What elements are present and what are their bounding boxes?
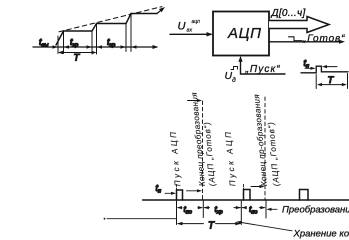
t_хр dimension xyxy=(204,207,209,209)
start pulse 2 xyxy=(244,190,251,201)
svg-text:T: T xyxy=(74,53,81,64)
ready arrowhead xyxy=(339,40,345,44)
time axis (staircase waveform) xyxy=(33,46,156,48)
svg-text:tхр: tхр xyxy=(107,37,115,48)
svg-text:Пуск АЦП: Пуск АЦП xyxy=(224,129,238,186)
t_хр2 dimension arrows xyxy=(97,45,102,48)
waveform end arrow xyxy=(157,9,163,14)
sampling ramp 1 xyxy=(56,31,64,45)
leader to Хранение кода xyxy=(239,222,293,231)
arrow to D1 top xyxy=(188,100,199,102)
dimension verticals (staircase) xyxy=(58,14,131,55)
t_п left arrow xyxy=(305,67,313,69)
sampling ramp 2 xyxy=(92,24,97,32)
svg-text:Uд: Uд xyxy=(225,70,237,84)
svg-text:tпо: tпо xyxy=(184,204,192,215)
start pulse waveform xyxy=(301,66,348,73)
svg-text:вх: вх xyxy=(187,28,193,34)
svg-text:tхр: tхр xyxy=(70,37,78,48)
t_п right arrow xyxy=(325,66,337,68)
T dimension line (pulse) xyxy=(319,84,346,86)
svg-text:„Готов“: „Готов“ xyxy=(302,34,345,45)
dashed leader D2 xyxy=(264,97,266,200)
dashed input signal xyxy=(59,7,162,32)
analog input arrowhead xyxy=(207,32,214,36)
axis end arrow xyxy=(153,45,159,49)
data bus arrow xyxy=(269,17,329,33)
T dimension extension line xyxy=(104,218,106,220)
svg-text:Пуск АЦП: Пуск АЦП xyxy=(169,129,183,186)
svg-text:tвы: tвы xyxy=(39,37,48,48)
svg-text:U: U xyxy=(178,21,186,33)
ready pulse glyph xyxy=(289,37,303,41)
t_по dimension 1 xyxy=(178,207,182,209)
sampling ramp 3 xyxy=(126,14,131,24)
t_п leader arrow (bottom) xyxy=(165,192,173,194)
start input wire xyxy=(241,59,286,74)
hold top 3 xyxy=(131,13,157,15)
arrow to D1 at pulse level xyxy=(187,190,199,192)
svg-text:Конец пр-образования: Конец пр-образования xyxy=(252,93,269,186)
ADC block U1 xyxy=(213,12,269,56)
svg-text:Д[0...ч]: Д[0...ч] xyxy=(271,8,306,19)
svg-text:tп: tп xyxy=(304,58,310,69)
conversion start arrow xyxy=(269,208,277,210)
period T dimension (staircase) xyxy=(60,52,96,54)
svg-text:tп: tп xyxy=(156,183,162,194)
t_вы dimension arrow xyxy=(53,45,58,48)
arrow to D2 xyxy=(251,186,262,188)
period T dimension (bottom) xyxy=(178,223,240,225)
bottom timing baseline xyxy=(143,199,349,201)
start pulse 1 xyxy=(177,190,183,200)
svg-text:tхр: tхр xyxy=(215,204,223,215)
dashed leader D1 xyxy=(202,101,204,200)
start pulse glyph xyxy=(231,67,238,70)
svg-text:(АЦП „Готов“): (АЦП „Готов“) xyxy=(266,121,281,187)
ready output wire xyxy=(269,41,342,43)
dashed tick above pulse 1 xyxy=(176,185,178,190)
t_по dimension 2 xyxy=(242,207,246,209)
svg-text:Хранение кода: Хранение кода xyxy=(293,229,349,240)
dashed tick above pulse 2 xyxy=(243,185,245,190)
svg-text:T: T xyxy=(208,221,215,232)
analog input wire xyxy=(170,33,210,35)
last dimension arrow xyxy=(132,45,137,48)
t_хр1 dimension arrows xyxy=(64,45,69,48)
bottom dimension verticals xyxy=(177,201,267,225)
hold top 1 xyxy=(64,30,93,32)
start pulse 3 xyxy=(300,190,309,201)
svg-text:ацп: ацп xyxy=(192,19,201,25)
T dimension verticals (pulse) xyxy=(316,74,347,89)
svg-text:tпо: tпо xyxy=(249,204,257,215)
svg-text:АЦП: АЦП xyxy=(227,25,262,42)
hold top 2 xyxy=(97,23,127,25)
start input arrowhead xyxy=(238,56,242,62)
svg-text:„Пуск“: „Пуск“ xyxy=(245,64,281,75)
svg-text:Преобразование: Преобразование xyxy=(282,205,349,216)
